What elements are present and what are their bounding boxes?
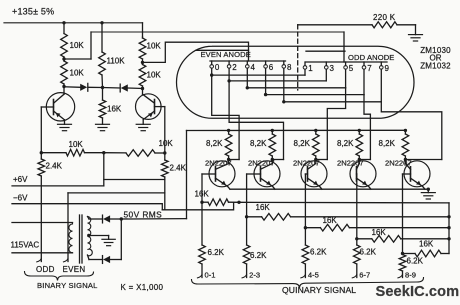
svg-text:8: 8 — [287, 63, 292, 72]
junction T1 collector node — [62, 85, 65, 88]
label ZM1030 OR ZM1032 — [420, 46, 451, 71]
transistor Q3 2N2207 — [209, 160, 235, 190]
svg-text:SeekIC.com: SeekIC.com — [376, 284, 460, 300]
svg-text:10K: 10K — [70, 69, 85, 78]
junction bias bus at 8.2K #3 — [314, 129, 317, 132]
wire base column 2-3 — [246, 174, 248, 245]
resistor 16K #4 — [357, 236, 449, 243]
resistor 8.2K #5 — [402, 130, 409, 159]
value label 6.2K #1 — [208, 248, 225, 257]
diode D1 (cross coupling, cathode right) — [64, 83, 103, 91]
svg-text:EVEN: EVEN — [63, 265, 86, 274]
terminal label 115VAC — [11, 241, 40, 250]
wire negative bias riser — [186, 131, 188, 219]
resistor 16K #5 — [403, 250, 450, 257]
resistor R10 2.4K — [162, 160, 169, 177]
wire cathode drop cell 5 — [381, 102, 442, 160]
label 50V RMS — [124, 210, 163, 220]
junction bias bus at 8.2K #2 — [271, 129, 274, 132]
wire cathode pair 0-1 — [212, 74, 305, 76]
svg-text:8,2K: 8,2K — [379, 139, 396, 148]
ground under R4 — [96, 124, 110, 130]
svg-text:6.2K: 6.2K — [208, 248, 225, 257]
svg-text:16K: 16K — [372, 228, 387, 237]
wire odd anode feed rail — [91, 31, 344, 33]
svg-text:8,2K: 8,2K — [206, 139, 223, 148]
value label 16K #5 — [419, 239, 434, 248]
wire rail corner down to R5 — [142, 23, 144, 37]
resistor 8.2K #1 — [225, 130, 232, 159]
wire Q7 base lead — [403, 173, 411, 175]
type label 2N2207 #4 — [337, 159, 364, 168]
wire cathode pair 6-7 — [266, 94, 364, 96]
wire 115VAC upper lead — [12, 222, 73, 224]
resistor R7 2.4K — [38, 159, 45, 176]
value label 8.2K #2 — [250, 139, 267, 148]
junction collector node #1 — [227, 158, 230, 161]
watermark SeekIC.com — [376, 284, 460, 300]
wire base column 8-9 — [402, 174, 404, 255]
svg-text:220 K: 220 K — [373, 13, 396, 22]
transformer core — [80, 215, 83, 263]
svg-text:2: 2 — [232, 63, 237, 72]
value label R2 10K — [70, 69, 85, 78]
wire rectifier output to bias line — [121, 218, 186, 220]
diode D4 rectifier (cathode left) — [103, 256, 122, 264]
junction on +135V rail at R3 110K column — [100, 21, 103, 24]
wire odd anode drop to bus — [343, 32, 345, 62]
wire cathode drop cell 2 — [229, 81, 283, 160]
label box EVEN ANODE — [196, 49, 249, 51]
junction 16K #5 node — [401, 252, 404, 255]
svg-text:4: 4 — [251, 63, 256, 72]
svg-text:10K: 10K — [147, 42, 162, 51]
net +6V rail — [12, 175, 104, 186]
wire even anode feed (divider to even bus) — [143, 42, 249, 62]
value label 16K #1 — [195, 190, 210, 199]
value label R10 2.4K — [170, 164, 187, 173]
value label R8 10K — [69, 140, 84, 149]
wire Q1 base column (to ODD input) — [40, 107, 42, 262]
junction 16K-1 left node — [200, 201, 203, 204]
diode D2 (cross coupling, cathode left) — [103, 84, 143, 92]
divider dashed line (even/odd halves) — [297, 25, 299, 90]
wire cathode drop cell 4 — [364, 95, 370, 160]
tube pin cathode 3 — [325, 62, 335, 81]
svg-text:16K: 16K — [419, 239, 434, 248]
svg-text:10K: 10K — [159, 139, 174, 148]
junction Q2 base bias node — [163, 151, 166, 154]
svg-text:+135± 5%: +135± 5% — [12, 7, 54, 17]
terminal label 8-9 — [405, 271, 416, 280]
svg-text:ZM1032: ZM1032 — [420, 62, 451, 71]
transistor Q2 (binary, right) — [136, 89, 162, 125]
type label 2N2207 #3 — [293, 159, 320, 168]
svg-text:2N2207: 2N2207 — [248, 159, 275, 168]
junction collector node #5 — [404, 158, 407, 161]
wire output terminal 4-5 — [301, 264, 306, 278]
ground common emitter — [421, 189, 435, 199]
svg-text:6.2K: 6.2K — [310, 247, 327, 256]
svg-text:16K: 16K — [107, 105, 122, 114]
wire output terminal 8-9 — [398, 271, 403, 278]
value label R3 110K — [107, 57, 126, 66]
wire odd anode bus — [306, 61, 387, 63]
transistor Q5 2N2207 — [301, 160, 327, 190]
value label 6.2K #4 — [360, 247, 377, 256]
svg-text:6-7: 6-7 — [359, 271, 370, 280]
tube pin cathode 5 — [344, 62, 354, 88]
wire collector link #1 — [229, 159, 240, 161]
terminal label ODD — [36, 265, 55, 274]
terminal label EVEN — [63, 265, 86, 274]
svg-text:K = X1,000: K = X1,000 — [121, 283, 164, 292]
wire common emitter bus — [230, 188, 428, 190]
junction collector node #3 — [314, 158, 317, 161]
wire base network to 16K ladder — [162, 203, 233, 210]
value label 6.2K #2 — [250, 251, 267, 260]
tube pin cathode 4 — [246, 61, 256, 90]
svg-text:−6V: −6V — [13, 194, 28, 203]
svg-text:2-3: 2-3 — [249, 271, 260, 280]
tube pin cathode 2 — [227, 61, 237, 83]
diode D3 rectifier (cathode left) — [103, 215, 122, 223]
transistor Q4 2N2207 — [254, 160, 280, 190]
svg-text:2.4K: 2.4K — [170, 164, 187, 173]
junction middle flip-flop node — [101, 86, 104, 89]
label QUINARY SIGNAL — [282, 285, 356, 295]
svg-text:5: 5 — [349, 64, 354, 73]
resistor R2 10K (below R1) — [61, 59, 68, 87]
svg-text:BINARY SIGNAL: BINARY SIGNAL — [37, 281, 98, 290]
terminal label 4-5 — [308, 271, 319, 280]
svg-text:0: 0 — [215, 63, 220, 72]
transistor Q6 2N2207 — [350, 160, 376, 190]
junction even divider tap — [141, 61, 144, 64]
value label R5 10K — [147, 42, 162, 51]
wire D4 to rectifier junction — [120, 219, 122, 260]
value label R4 16K — [107, 105, 122, 114]
wire base column 6-7 — [356, 174, 358, 245]
wire cathode pair 2-3 — [229, 80, 326, 82]
label K = X1,000 — [121, 283, 164, 292]
wire Q4 base lead — [247, 173, 261, 175]
junction 16K #3 node — [304, 226, 307, 229]
resistor 6.2K #5 — [399, 255, 406, 272]
svg-text:2N2207: 2N2207 — [337, 159, 364, 168]
value label 8.2K #4 — [337, 139, 354, 148]
svg-text:110K: 110K — [107, 57, 126, 66]
resistor R6 10K (right column lower) — [139, 62, 146, 88]
svg-text:EVEN ANODE: EVEN ANODE — [201, 50, 251, 59]
label box ODD ANODE — [306, 50, 345, 52]
svg-text:7: 7 — [367, 64, 372, 73]
value label 8.2K #1 — [206, 139, 223, 148]
svg-text:16K: 16K — [256, 203, 271, 212]
svg-text:+6V: +6V — [13, 175, 28, 184]
nixie tube V1 envelope — [177, 46, 415, 118]
svg-text:10K: 10K — [147, 71, 162, 80]
wire bias bus vertical (right) — [448, 203, 450, 254]
resistor 16K #3 — [305, 224, 449, 231]
type label 2N2207 #2 — [248, 159, 275, 168]
junction bias bus at 8.2K #4 — [358, 129, 361, 132]
junction rectifier output — [120, 217, 123, 220]
resistor R4 16K (middle column) — [99, 88, 106, 125]
tube pin cathode 0 — [210, 61, 220, 77]
ground at center tap — [102, 236, 115, 246]
value label 8.2K #3 — [294, 139, 311, 148]
svg-text:8,2K: 8,2K — [250, 139, 267, 148]
ground after 220K — [409, 25, 423, 41]
wire Q1 base lead — [41, 106, 53, 108]
transistor Q7 2N2207 — [404, 160, 430, 190]
value label 6.2K #5 — [407, 256, 424, 265]
wire negative bias bus (8.2K tops) — [187, 129, 406, 131]
svg-text:8,2K: 8,2K — [337, 139, 354, 148]
svg-text:4-5: 4-5 — [308, 271, 319, 280]
junction collector node #2 — [271, 158, 274, 161]
net +135V supply label — [12, 7, 54, 17]
transformer T primary winding — [69, 223, 73, 253]
net -6V rail — [12, 194, 162, 210]
junction bias bus at 8.2K #5 — [404, 129, 407, 132]
value label 8.2K #5 — [379, 139, 396, 148]
terminal label 2-3 — [249, 271, 260, 280]
svg-text:0-1: 0-1 — [205, 271, 216, 280]
value label 6.2K #3 — [310, 247, 327, 256]
brace QUINARY SIGNAL — [192, 278, 424, 288]
svg-text:1: 1 — [308, 64, 313, 73]
terminal tick EVEN — [63, 259, 68, 262]
resistor 8.2K #4 — [356, 130, 363, 159]
svg-text:ODD: ODD — [36, 265, 55, 274]
wire cathode drop cell 1 — [212, 75, 239, 159]
junction T2 collector node — [141, 87, 144, 90]
terminal tick ODD — [37, 259, 42, 262]
value label R9 10K — [159, 139, 174, 148]
wire Q3 base lead — [202, 173, 216, 175]
wire secondary top to D3 — [88, 217, 103, 220]
junction bus 16K #3 — [447, 226, 450, 229]
wire EVEN input to Q2 base — [68, 192, 165, 194]
svg-text:6: 6 — [269, 63, 274, 72]
junction bus 16K #4 — [447, 237, 450, 240]
svg-text:16K: 16K — [323, 216, 338, 225]
transistor Q1 (binary, left) — [46, 87, 74, 125]
net label EVEN ANODE — [201, 50, 251, 59]
resistor R1 10K (upper left) — [61, 23, 68, 59]
label BINARY SIGNAL — [37, 281, 98, 290]
wire divider tap to odd-anode rail riser — [64, 58, 91, 60]
wire collector link #2 — [272, 159, 283, 161]
svg-text:2N2207: 2N2207 — [385, 159, 412, 168]
tube pin cathode 1 — [303, 62, 313, 75]
wire secondary center tap — [87, 234, 108, 237]
wire EVEN input column — [67, 193, 69, 262]
svg-text:3: 3 — [330, 64, 335, 73]
resistor 8.2K #3 — [313, 130, 320, 159]
wire output terminal 2-3 — [242, 264, 247, 278]
wire cathode drop cell 3 — [327, 88, 345, 160]
resistor 6.2K #4 — [354, 245, 361, 264]
wire output terminal 0-1 — [197, 264, 202, 278]
transformer secondary winding — [88, 217, 93, 256]
svg-text:6.2K: 6.2K — [407, 256, 424, 265]
junction bias mid node — [102, 151, 105, 154]
resistor R11 220K — [298, 22, 416, 28]
wire Q6 base lead — [356, 173, 358, 175]
value label 16K #3 — [323, 216, 338, 225]
wire Q2 base column lower — [164, 177, 166, 210]
svg-text:2.4K: 2.4K — [46, 162, 63, 171]
junction 16K #4 node — [355, 237, 358, 240]
wire cathode pair 8-9 — [284, 101, 382, 103]
value label 16K #4 — [372, 228, 387, 237]
tube pin cathode 8 — [282, 61, 292, 104]
wire riser x=91 up to anode rail — [90, 32, 92, 59]
resistor 16K #2 — [247, 214, 449, 221]
svg-text:ODD ANODE: ODD ANODE — [348, 53, 394, 62]
value label 16K #2 — [256, 203, 271, 212]
type label 2N2207 #5 — [385, 159, 412, 168]
resistor R8 10K (horizontal) — [41, 149, 104, 156]
wire base column 0-1 — [201, 174, 203, 245]
junction bus 16K #2 — [447, 215, 450, 218]
wire +135V rail — [4, 22, 143, 24]
resistor R5 10K (right column upper) — [139, 37, 146, 62]
terminal label 6-7 — [359, 271, 370, 280]
wire output terminal 6-7 — [352, 264, 357, 278]
resistor R9 10K (horizontal right) — [104, 150, 165, 157]
wire collector link #4 — [359, 159, 370, 161]
svg-text:2N2207: 2N2207 — [205, 159, 232, 168]
brace BINARY SIGNAL — [25, 272, 94, 281]
junction Q1 base bias node — [40, 151, 43, 154]
tube pin cathode 7 — [362, 62, 372, 95]
wire Q2 base column — [164, 107, 166, 160]
resistor 6.2K #1 — [199, 245, 206, 264]
resistor 8.2K #2 — [269, 130, 276, 159]
svg-text:115VAC: 115VAC — [11, 241, 40, 250]
ground under Q2 emitter — [136, 124, 150, 130]
wire -6V distribution to bus — [239, 201, 449, 204]
svg-text:6.2K: 6.2K — [360, 247, 377, 256]
svg-text:50V RMS: 50V RMS — [124, 210, 163, 220]
value label 220 K — [373, 13, 396, 22]
value label R7 2.4K — [46, 162, 63, 171]
type label 2N2207 #1 — [205, 159, 232, 168]
resistor 16K #1 — [202, 199, 239, 206]
wire collector link #3 — [316, 159, 328, 161]
svg-text:QUINARY SIGNAL: QUINARY SIGNAL — [282, 285, 356, 295]
wire +6V extension to Q2 bias — [104, 179, 165, 181]
node divider junction T1 collector chain — [62, 57, 65, 60]
net label ODD ANODE — [348, 53, 394, 62]
wire bias mid column to +6V — [103, 153, 105, 186]
junction -6V tie node — [237, 201, 240, 204]
value label R6 10K — [147, 71, 162, 80]
wire secondary bottom to D4 — [88, 255, 103, 260]
svg-text:2N2207: 2N2207 — [293, 159, 320, 168]
ground under Q1 emitter — [58, 124, 72, 130]
wire Q5 base lead — [305, 173, 307, 175]
junction collector node #4 — [358, 158, 361, 161]
tube pin cathode 6 — [264, 61, 274, 96]
resistor 6.2K #2 — [243, 245, 250, 264]
junction bias bus at 8.2K #1 — [227, 129, 230, 132]
wire base column 4-5 — [304, 174, 306, 245]
value label R1 10K — [70, 41, 85, 50]
svg-text:9: 9 — [385, 64, 390, 73]
wire Q2 base lead — [155, 106, 165, 108]
junction emitter ground node — [427, 188, 430, 191]
svg-text:10K: 10K — [70, 41, 85, 50]
tube pin cathode 9 — [380, 62, 390, 102]
wire 115VAC lower lead — [12, 252, 73, 254]
svg-text:8-9: 8-9 — [405, 271, 416, 280]
wire cathode pair 4-5 — [247, 87, 345, 89]
junction 16K #2 node — [245, 215, 248, 218]
svg-text:6.2K: 6.2K — [250, 251, 267, 260]
junction on +135V rail at R1 — [62, 21, 65, 24]
resistor 6.2K #3 — [302, 245, 309, 264]
svg-text:8,2K: 8,2K — [294, 139, 311, 148]
svg-text:10K: 10K — [69, 140, 84, 149]
wire collector link #5 — [405, 159, 441, 161]
resistor R3 110K (middle column) — [99, 23, 106, 88]
wire even anode bus — [210, 60, 286, 62]
terminal label 0-1 — [205, 271, 216, 280]
